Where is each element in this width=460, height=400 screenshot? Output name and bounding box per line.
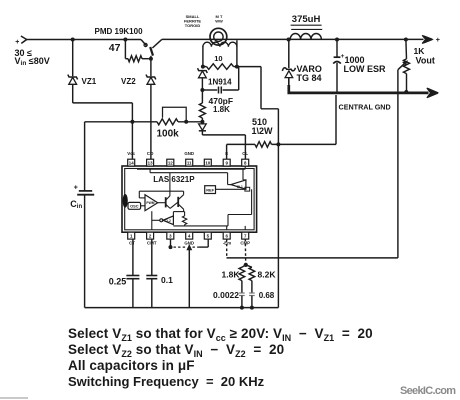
svg-text:E: E	[225, 151, 228, 156]
svg-text:+: +	[436, 35, 441, 44]
svg-text:TOROID: TOROID	[185, 23, 201, 28]
svg-text:PWM: PWM	[146, 201, 154, 205]
svg-text:0.25: 0.25	[109, 276, 127, 286]
svg-text:Cin: Cin	[70, 199, 82, 210]
svg-text:CMP: CMP	[240, 241, 250, 246]
svg-text:LOW ESR: LOW ESR	[344, 64, 386, 74]
svg-text:1.8K: 1.8K	[222, 269, 241, 279]
svg-text:CENTRAL GND: CENTRAL GND	[339, 102, 391, 111]
svg-text:Vcc: Vcc	[127, 151, 135, 156]
svg-text:CL1: CL1	[237, 185, 243, 189]
svg-text:TG 84: TG 84	[297, 73, 322, 83]
svg-text:REF: REF	[206, 188, 214, 193]
svg-text:13: 13	[148, 161, 153, 166]
svg-text:375uH: 375uH	[292, 14, 321, 25]
svg-text:Vout: Vout	[416, 55, 435, 65]
svg-text:VZ2: VZ2	[121, 77, 136, 86]
svg-text:12: 12	[168, 161, 173, 166]
svg-text:0.68: 0.68	[259, 291, 275, 300]
svg-text:VZ1: VZ1	[82, 77, 97, 86]
svg-text:14: 14	[129, 161, 134, 166]
svg-text:10: 10	[214, 54, 222, 63]
svg-text:0.1: 0.1	[161, 275, 173, 285]
svg-text:CL2: CL2	[165, 219, 171, 223]
svg-text:0.0022: 0.0022	[213, 290, 239, 300]
svg-text:+: +	[15, 39, 19, 46]
svg-text:WW: WW	[215, 19, 223, 24]
svg-text:-Em: -Em	[223, 241, 231, 246]
svg-text:OSC: OSC	[130, 204, 139, 209]
svg-text:Vin ≤80V: Vin ≤80V	[15, 56, 50, 67]
svg-text:1.8K: 1.8K	[213, 105, 230, 114]
svg-text:11: 11	[187, 161, 192, 166]
svg-text:LAS 6321P: LAS 6321P	[153, 175, 195, 184]
svg-text:8.2K: 8.2K	[258, 269, 277, 279]
svg-text:10: 10	[205, 161, 210, 166]
svg-text:1N914: 1N914	[208, 78, 232, 87]
svg-text:100k: 100k	[157, 128, 180, 139]
svg-text:CO: CO	[147, 151, 154, 156]
svg-text:47: 47	[109, 42, 121, 54]
svg-text:1\2W: 1\2W	[252, 126, 274, 136]
svg-text:+: +	[74, 184, 78, 191]
svg-text:GND: GND	[184, 151, 194, 156]
svg-text:PMD 19K100: PMD 19K100	[95, 27, 144, 36]
svg-text:CL: CL	[242, 151, 248, 156]
svg-text:CT: CT	[129, 241, 135, 246]
